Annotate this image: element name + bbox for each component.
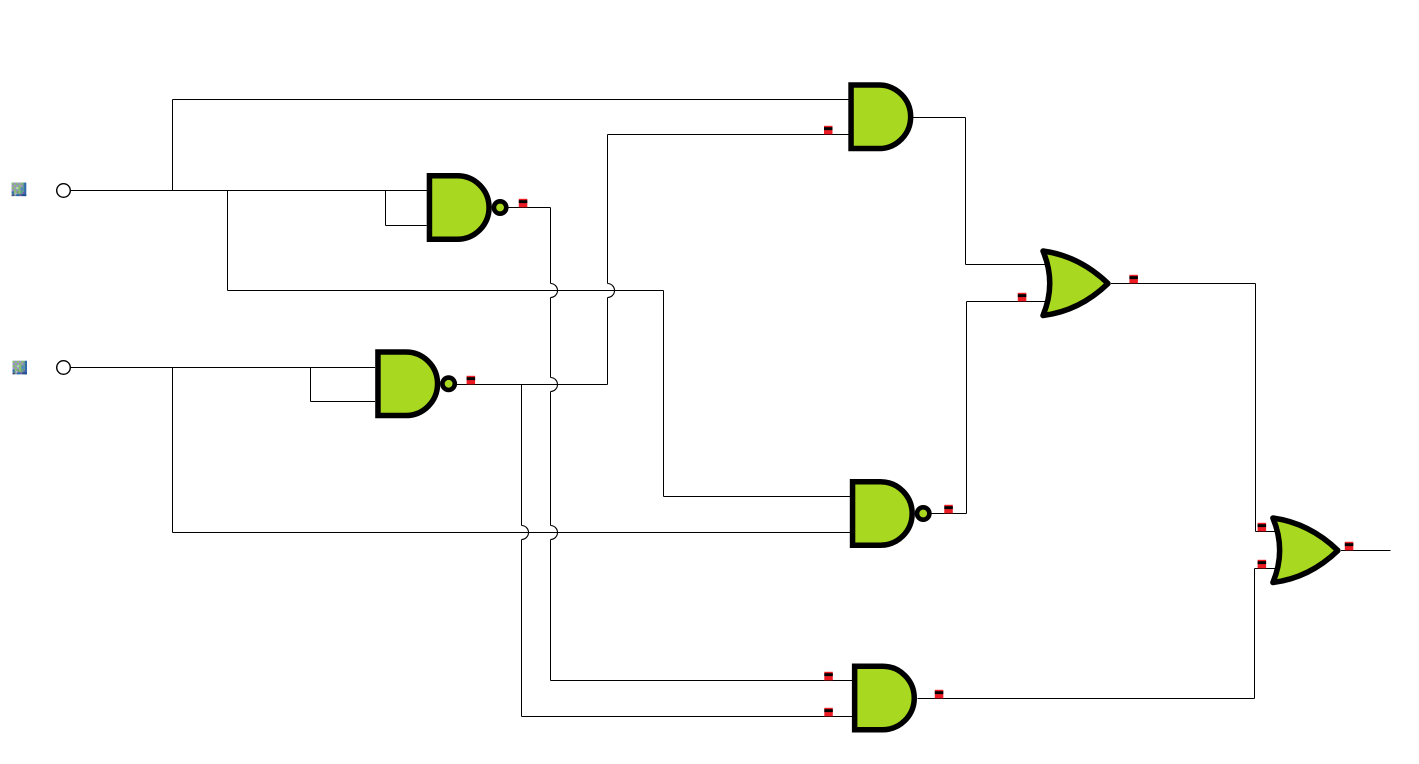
wire top horizontal A to AND U3 input 1 xyxy=(173,99,849,101)
wire horizontal A branch to node xyxy=(228,290,664,292)
wire NAND U1 input 2 branch vertical xyxy=(385,191,387,226)
wire vertical NAND U2 branch down segment 1 xyxy=(521,385,523,526)
wire input B horizontal xyxy=(71,367,376,369)
wire horizontal into AND U6 input 2 xyxy=(522,716,852,718)
wire horizontal into AND U6 input 1 xyxy=(551,680,852,682)
wire hop at x550 y384 xyxy=(551,378,558,392)
indicator AND U6 output xyxy=(935,690,944,699)
OR gate U7 xyxy=(1273,518,1338,583)
wire NAND U2 input 2 stub xyxy=(311,401,376,403)
indicator AND U6 input 1 xyxy=(824,672,833,681)
AND gate U3 xyxy=(851,85,911,149)
wire OR U4 output horizontal xyxy=(1111,283,1256,285)
wire OR U7 output xyxy=(1341,550,1390,552)
wire NAND U5 output horizontal xyxy=(932,513,967,515)
wire AND U3 output horizontal xyxy=(913,117,966,119)
wire vertical NAND U1 output down segment 1 xyxy=(550,208,552,284)
indicator OR U4 output xyxy=(1129,275,1138,284)
wire vertical NAND U1 output down segment 2 xyxy=(550,298,552,378)
wire B branch down vertical xyxy=(172,368,174,533)
indicator NAND U2 output xyxy=(467,376,476,385)
wire vertical to NAND U5 input 1 xyxy=(663,291,665,497)
indicator AND U6 input 2 xyxy=(824,708,833,717)
indicator OR U7 output xyxy=(1345,542,1354,551)
wire AND U6 output horizontal xyxy=(918,698,1255,700)
wire into OR U4 input 2 xyxy=(967,301,1056,303)
indicator OR U4 input 2 xyxy=(1018,293,1027,302)
input icon B xyxy=(13,361,28,375)
indicator AND U3 input 2 xyxy=(824,126,833,135)
wire horizontal B to NAND U5 input 2 xyxy=(173,532,850,534)
wire AND U3 output vertical down xyxy=(965,118,967,265)
wire horizontal into NAND U5 input 1 xyxy=(664,496,850,498)
wire hop at x607 y290 xyxy=(608,284,615,298)
wire vertical NAND U2 output up segment 2 xyxy=(607,135,609,284)
input icon A xyxy=(12,183,27,197)
wire into OR U7 input 1 xyxy=(1256,531,1284,533)
wire vertical NAND U2 branch down segment 2 xyxy=(521,540,523,717)
wire A branch down vertical xyxy=(227,191,229,291)
wire NAND U1 input 2 stub xyxy=(386,225,427,227)
input terminal A xyxy=(57,184,71,198)
wire NAND U1 output horizontal xyxy=(508,207,550,209)
wire vertical NAND U1 output down segment 3 xyxy=(550,392,552,526)
wire into OR U4 input 1 xyxy=(966,264,1054,266)
wire hop at x521 y531 xyxy=(522,526,529,540)
wire vertical NAND U2 output up segment 1 xyxy=(607,298,609,385)
OR gate U4 xyxy=(1043,251,1108,316)
indicator OR U7 input 2 xyxy=(1258,560,1267,569)
wire A branch up vertical xyxy=(172,100,174,191)
indicator NAND U5 output xyxy=(944,505,953,514)
wire NAND U2 output horizontal xyxy=(456,384,607,386)
wire OR U4 output vertical down xyxy=(1255,284,1257,532)
indicator NAND U1 output xyxy=(519,199,528,208)
wire AND U6 output vertical up xyxy=(1254,569,1256,699)
wire NAND U5 output vertical up xyxy=(966,302,968,514)
wire into OR U7 input 2 xyxy=(1255,568,1284,570)
wire NAND U2 input 2 branch vertical xyxy=(310,368,312,402)
indicator OR U7 input 1 xyxy=(1258,523,1267,532)
AND gate U6 xyxy=(855,666,915,730)
NAND gate U1 xyxy=(429,176,506,240)
wire input A horizontal xyxy=(71,190,428,192)
wire hop at x550 y531 xyxy=(551,526,558,540)
NAND gate U2 xyxy=(378,352,455,416)
NAND gate U5 xyxy=(853,482,930,546)
wire hop at x550 y290 xyxy=(551,284,558,298)
input terminal B xyxy=(57,361,71,375)
wire vertical NAND U1 output down segment 4 xyxy=(550,540,552,681)
wire horizontal into AND U3 input 2 xyxy=(608,134,849,136)
